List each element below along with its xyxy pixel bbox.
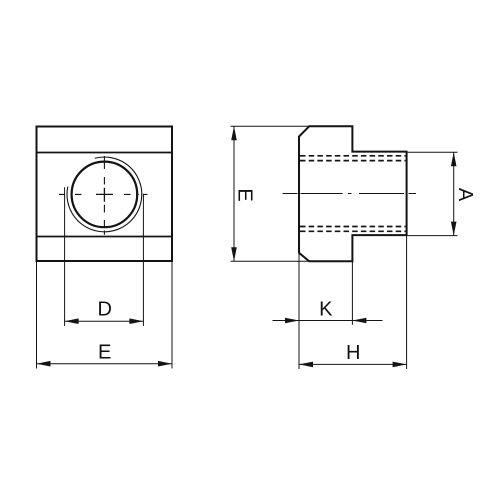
thread hidden line bottom outer xyxy=(300,230,406,232)
vertical centerline top dashes xyxy=(103,156,105,185)
dimension E(side) line xyxy=(233,126,235,261)
dimension K line xyxy=(273,320,383,322)
svg-text:H: H xyxy=(346,342,360,364)
dimension K left arrowhead (outside) xyxy=(285,318,299,324)
dimension H left arrowhead xyxy=(299,362,313,368)
dimension E(side) top extension line xyxy=(231,125,310,127)
dimension E(front) right extension line xyxy=(171,261,173,369)
tapped hole inner circle xyxy=(72,162,138,228)
front view outer outline xyxy=(37,127,173,262)
dimension E(front) line xyxy=(37,363,173,365)
vertical centerline bottom dashes xyxy=(103,205,105,235)
dimension A line xyxy=(453,152,455,235)
side view body outline with chamfers xyxy=(299,126,407,261)
svg-text:E: E xyxy=(234,188,256,201)
svg-text:A: A xyxy=(454,188,476,202)
dimension E(front) right arrowhead xyxy=(158,361,172,367)
dimension A bottom extension line xyxy=(408,235,458,237)
dimension D left extension line xyxy=(64,187,66,326)
dimension D left arrowhead xyxy=(65,318,79,324)
dimension H line xyxy=(299,363,407,365)
center cross mark xyxy=(96,188,113,202)
thread hidden line top outer xyxy=(300,155,406,157)
front view bottom band line xyxy=(37,236,173,238)
dimension A top extension line xyxy=(408,151,458,153)
svg-text:E: E xyxy=(98,341,111,363)
side view axis centerline xyxy=(283,193,417,195)
dimension E(side) top arrowhead xyxy=(231,126,237,140)
svg-text:D: D xyxy=(97,299,111,321)
dimension K right arrowhead (outside) xyxy=(352,318,366,324)
dimension D right extension line xyxy=(142,194,144,326)
dimension E(side) bottom arrowhead xyxy=(231,247,237,261)
dimension H right arrowhead xyxy=(393,362,407,368)
dimension D right arrowhead xyxy=(129,318,143,324)
dimension E(front) left extension line xyxy=(36,261,38,369)
svg-text:K: K xyxy=(319,298,333,320)
dimension E(side) bottom extension line xyxy=(231,260,310,262)
thread hidden line bottom inner xyxy=(300,226,406,228)
dimension E(front) left arrowhead xyxy=(37,361,51,367)
dimension A bottom arrowhead xyxy=(451,222,457,236)
H right extension line xyxy=(406,236,408,369)
horizontal centerline left dashes xyxy=(59,193,82,195)
dimension A top arrowhead xyxy=(451,152,457,166)
front view top band line xyxy=(37,152,173,154)
K/H left extension line xyxy=(298,254,300,370)
horizontal centerline right dashes xyxy=(124,193,148,195)
dimension D line xyxy=(65,320,144,322)
thread hidden line top inner xyxy=(300,160,406,162)
thread major-diameter arc xyxy=(67,157,142,232)
K right extension line xyxy=(351,261,353,325)
